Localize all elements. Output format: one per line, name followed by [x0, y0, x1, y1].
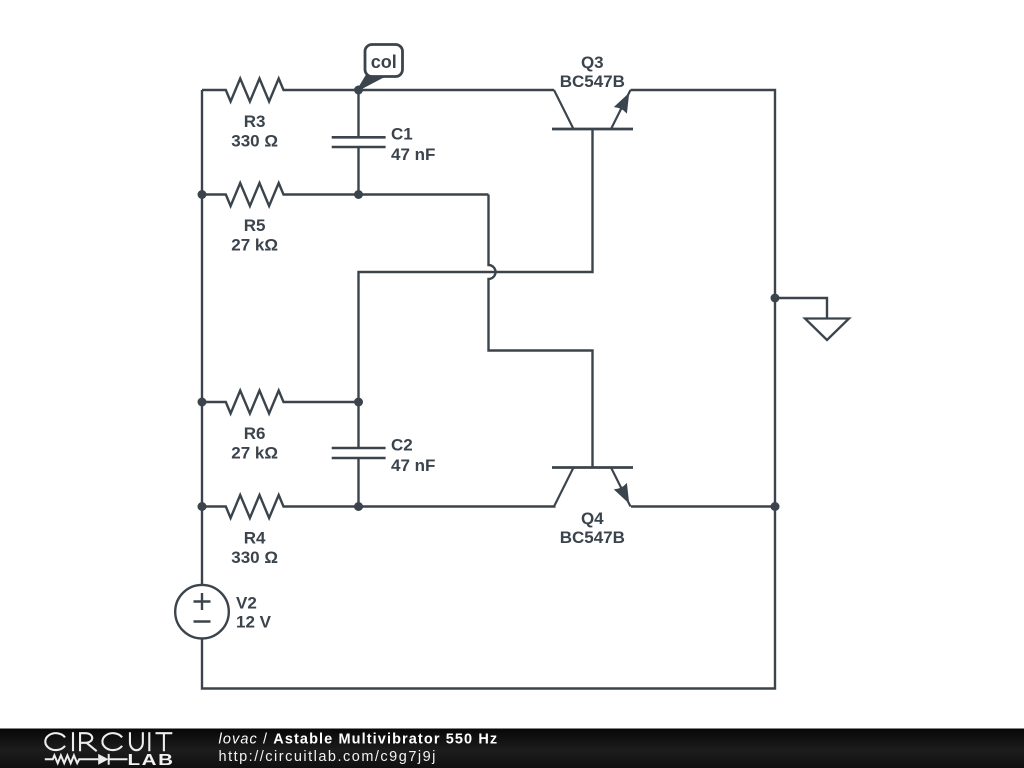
svg-text:Q4: Q4 — [581, 509, 604, 528]
svg-text:R4: R4 — [244, 529, 266, 548]
svg-text:27 kΩ: 27 kΩ — [231, 444, 278, 463]
svg-text:col: col — [371, 52, 397, 72]
svg-text:C1: C1 — [391, 125, 413, 144]
svg-text:Q3: Q3 — [581, 53, 604, 72]
svg-text:LAB: LAB — [128, 751, 175, 768]
svg-text:R6: R6 — [244, 424, 266, 443]
svg-text:330 Ω: 330 Ω — [231, 132, 278, 151]
svg-text:R5: R5 — [244, 216, 266, 235]
svg-text:http://circuitlab.com/c9g7j9j: http://circuitlab.com/c9g7j9j — [219, 749, 437, 765]
svg-text:BC547B: BC547B — [560, 528, 625, 547]
svg-text:V2: V2 — [236, 594, 257, 613]
svg-text:C2: C2 — [391, 436, 413, 455]
svg-text:lovac / Astable Multivibrator: lovac / Astable Multivibrator 550 Hz — [219, 732, 499, 748]
svg-text:47 nF: 47 nF — [391, 456, 435, 475]
svg-text:BC547B: BC547B — [560, 72, 625, 91]
svg-text:R3: R3 — [244, 112, 266, 131]
svg-text:27 kΩ: 27 kΩ — [231, 236, 278, 255]
svg-text:330 Ω: 330 Ω — [231, 548, 278, 567]
svg-text:47 nF: 47 nF — [391, 145, 435, 164]
svg-text:12 V: 12 V — [236, 613, 272, 632]
